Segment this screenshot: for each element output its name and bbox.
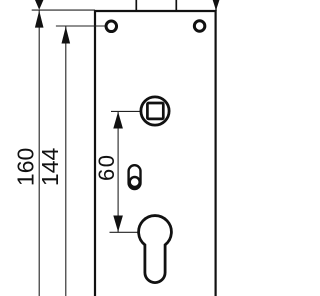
- arrow up of 60 dimension: [113, 112, 123, 129]
- slotted adjuster hole outline: [129, 165, 141, 189]
- plate outline: [95, 11, 216, 296]
- extension line for 144 (screw hole centers): [56, 25, 105, 27]
- extension line top A (cylinder width, cropped above): [135, 0, 137, 12]
- dimension line right corner (cropped above): [215, 0, 217, 11]
- dimension line 144: [65, 26, 67, 296]
- svg-text:60: 60: [94, 154, 119, 181]
- extension line 60 top (spindle center): [111, 110, 140, 112]
- dimension line 160: [38, 10, 40, 296]
- arrow up of 144 dimension: [62, 27, 71, 44]
- extension line top B (cylinder width, cropped above): [175, 0, 177, 12]
- dimension line 60: [117, 111, 119, 232]
- spindle square 8mm: [147, 103, 163, 119]
- arrow down (upper dim, cropped) at 160 line: [35, 0, 43, 10]
- slotted adjuster hole pin circle: [130, 177, 140, 187]
- screw hole right: [194, 21, 205, 32]
- svg-text:144: 144: [37, 148, 63, 187]
- extension line for 160 (plate top edge): [32, 9, 95, 11]
- euro cylinder hole: [139, 216, 172, 283]
- screw hole left: [106, 21, 117, 32]
- arrow up of 160 dimension: [35, 11, 44, 28]
- extension line 60 bottom (cylinder center): [110, 231, 138, 233]
- svg-text:160: 160: [13, 148, 39, 186]
- arrow down at plate top right corner: [213, 0, 220, 11]
- arrow down of 60 dimension: [113, 216, 123, 232]
- spindle hole circle: [141, 97, 169, 125]
